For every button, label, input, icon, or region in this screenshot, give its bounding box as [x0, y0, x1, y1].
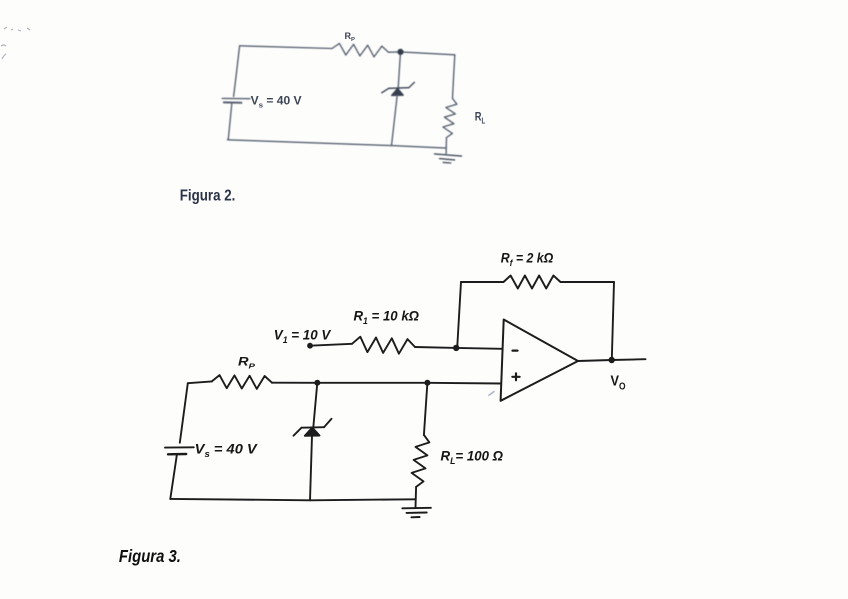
battery Vs (fig3) — [165, 446, 194, 448]
svg-text:V1​ = 10 V: V1​ = 10 V — [274, 327, 331, 345]
ground (fig2) — [435, 154, 462, 163]
wire: bottom rail — [228, 140, 447, 148]
wire: zener branch top — [313, 383, 317, 428]
svg-text:Vs​ = 40 V: Vs​ = 40 V — [195, 441, 259, 460]
wire: zener bottom — [392, 95, 398, 145]
resistor Rf — [504, 276, 561, 289]
resistor R1 — [352, 337, 415, 354]
resistor Rp (fig2) — [332, 43, 389, 57]
wire: feedback top rail — [461, 281, 504, 283]
svg-text:Figura 3.: Figura 3. — [119, 546, 181, 566]
wire: R1 to inverting input — [415, 347, 502, 349]
svg-text:RL​= 100 Ω: RL​= 100 Ω — [441, 448, 504, 467]
wire: middle rail (Rp to + input) — [188, 381, 212, 383]
resistor Rp (fig3) — [212, 375, 272, 389]
wire: battery to bottom-left corner — [170, 455, 177, 499]
wire: bottom rail — [170, 499, 415, 500]
wire: left side down to battery — [180, 383, 188, 443]
node D (zener junction dot) — [314, 380, 320, 386]
wire: RL bottom stem — [415, 487, 418, 508]
node C (output junction dot) — [609, 357, 615, 363]
wire: RL bottom stem — [445, 138, 447, 154]
resistor RL (fig2) — [443, 99, 457, 138]
wire: zener bottom — [310, 436, 312, 501]
ground (fig3) — [402, 508, 431, 518]
wire: rail through nodes to op-amp — [272, 382, 501, 385]
node E (RL junction dot) — [424, 380, 430, 386]
wire: feedback left vertical — [457, 282, 461, 348]
wire: Rf to right corner — [561, 281, 615, 283]
zener diode D1 (fig3) — [294, 419, 332, 436]
wire: feedback right vertical — [612, 282, 614, 360]
wire: op-amp output — [578, 359, 646, 361]
node V1 terminal dot — [307, 343, 313, 349]
wire: right side down to RL — [453, 55, 455, 99]
wire: zener branch top — [398, 52, 400, 88]
svg-text:Rf​ = 2 kΩ: Rf​ = 2 kΩ — [501, 251, 554, 269]
wire: top-left corner to resistor Rp — [240, 46, 332, 49]
svg-text:Figura 2.: Figura 2. — [180, 187, 236, 204]
wire: V1 to R1 — [310, 344, 352, 346]
battery Vs (fig2) — [222, 97, 250, 99]
wire: resistor to node to top-right corner — [389, 52, 455, 55]
wire: RL branch top — [424, 383, 428, 435]
zener diode D1 (fig2) — [382, 82, 415, 95]
node B (inverting junction dot) — [453, 345, 459, 351]
wire: battery to bottom-left corner — [228, 104, 232, 140]
node A (fig2 junction dot) — [397, 49, 403, 55]
scan speckle artifacts top-left — [1, 27, 30, 59]
stray pen tick near op-amp — [488, 391, 494, 395]
wire: left side (source branch) — [234, 46, 240, 97]
svg-text:Vs​ = 40 V: Vs​ = 40 V — [251, 96, 302, 110]
op-amp U1 — [501, 320, 578, 401]
resistor RL (fig3) — [412, 435, 430, 487]
